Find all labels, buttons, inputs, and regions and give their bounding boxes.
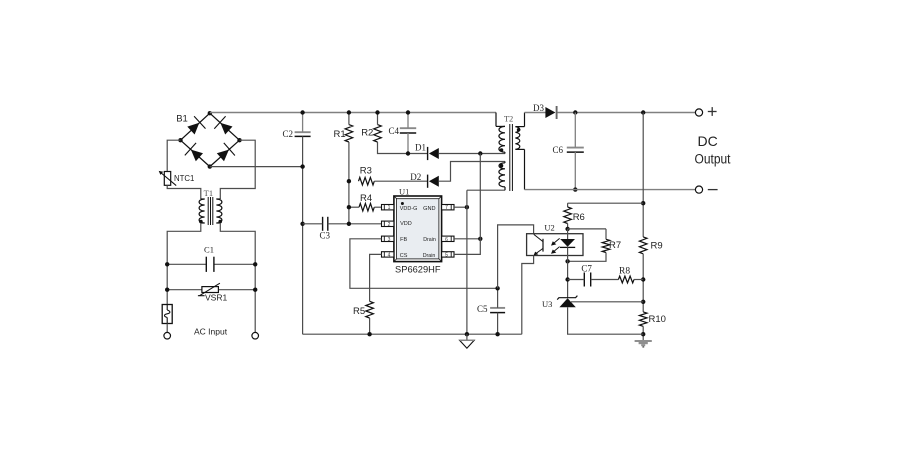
resistor R1	[345, 125, 353, 142]
DC output + terminal	[695, 109, 702, 116]
svg-text:R6: R6	[573, 212, 585, 223]
svg-text:NTC1: NTC1	[174, 173, 195, 183]
svg-text:VDD-G: VDD-G	[400, 206, 418, 212]
label R10	[649, 314, 666, 325]
label U2	[544, 222, 554, 232]
svg-text:R7: R7	[609, 240, 621, 251]
label VDD	[400, 221, 412, 227]
svg-text:R9: R9	[651, 240, 663, 251]
node U3 ref junction	[641, 300, 645, 304]
node C4 top	[406, 110, 410, 114]
wire U3 anode	[568, 307, 644, 334]
wire NTC to T1 left	[167, 185, 201, 199]
label C1	[204, 245, 214, 255]
svg-text:C1: C1	[204, 245, 214, 255]
phase dot T1 right	[218, 220, 222, 224]
label +	[708, 107, 717, 116]
svg-text:4: 4	[388, 252, 391, 258]
phase dot T2 aux	[500, 164, 504, 168]
svg-text:AC Input: AC Input	[194, 327, 228, 337]
label DC	[697, 133, 717, 149]
wire C4 top lead	[407, 113, 409, 129]
AC terminal left	[164, 332, 171, 339]
label R6	[573, 212, 585, 223]
node R2 top	[375, 110, 379, 114]
transformer T2	[496, 113, 525, 192]
label R2	[361, 128, 373, 139]
svg-text:SP6629HF: SP6629HF	[395, 265, 441, 275]
wire FB net	[350, 239, 498, 288]
wire C6 top lead	[574, 113, 576, 148]
wire U3 ref line	[571, 301, 643, 303]
wire drain column	[454, 154, 480, 255]
capacitor C3	[323, 217, 328, 231]
wire R6 bottom lead	[567, 224, 569, 229]
wire bridge right to T1 right	[220, 140, 255, 199]
wire aux winding bottom	[467, 189, 505, 191]
label Drain pin6	[423, 237, 436, 243]
wire R8 right lead	[634, 279, 643, 281]
label R1	[334, 129, 346, 140]
wire C4 bottom lead	[407, 133, 409, 154]
label VDD-G	[400, 206, 418, 212]
node Drain junction	[478, 237, 482, 241]
wire C5 bottom lead	[497, 313, 499, 335]
wire C2 top lead	[302, 113, 304, 133]
label -	[708, 189, 718, 191]
pin 5 (Drain)	[442, 252, 454, 259]
fuse F1	[162, 305, 172, 324]
wire + rail	[557, 112, 695, 114]
svg-text:C5: C5	[477, 304, 488, 314]
wire C1 left lead	[167, 263, 206, 265]
svg-text:U1: U1	[399, 186, 409, 196]
wire opto collector	[498, 225, 534, 288]
diode D1	[428, 147, 439, 160]
wire bridge left to NTC	[167, 140, 180, 171]
svg-text:3: 3	[388, 237, 391, 243]
label C6	[553, 145, 564, 155]
opto LED	[560, 239, 575, 247]
wire R3 right lead	[374, 180, 427, 182]
opto phototransistor	[534, 234, 544, 255]
capacitor C1	[206, 257, 214, 272]
node R8 right junction	[641, 277, 645, 281]
phase dot T2 secondary	[517, 128, 521, 132]
wire R7 top lead	[605, 229, 607, 239]
svg-text:2: 2	[388, 222, 391, 228]
node VSR1 right	[253, 288, 257, 292]
wire C6 bottom lead	[574, 152, 576, 190]
svg-text:T1: T1	[204, 188, 213, 198]
node R10 bottom	[641, 332, 645, 336]
node C6 top	[573, 110, 577, 114]
wire R4 left lead	[349, 206, 359, 208]
node C5 top FB junction	[495, 286, 499, 290]
AC terminal right	[252, 332, 259, 339]
wire R2 top lead	[377, 113, 379, 125]
node R4 left	[347, 205, 351, 209]
wire Drain pin6 lead	[454, 238, 480, 240]
capacitor C7	[584, 273, 590, 287]
label R9	[651, 240, 663, 251]
wire - rail	[525, 189, 696, 191]
svg-text:VSR1: VSR1	[205, 293, 227, 303]
node C4 bottom	[406, 151, 410, 155]
node GND pin junction	[465, 205, 469, 209]
wire GND pin lead	[454, 206, 467, 208]
resistor R2	[374, 125, 382, 142]
optocoupler U2 body	[527, 234, 583, 256]
svg-text:U3: U3	[542, 299, 552, 309]
resistor R8	[618, 276, 634, 283]
svg-text:D1: D1	[415, 143, 426, 153]
svg-text:Output: Output	[695, 152, 731, 167]
wire R7 top line	[568, 228, 606, 230]
node VSR1 left	[165, 288, 169, 292]
label NTC1	[174, 173, 195, 183]
label C3	[320, 230, 331, 240]
svg-text:C6: C6	[553, 145, 564, 155]
wire opto emitter	[522, 256, 534, 335]
diode D3	[545, 106, 556, 119]
node C2 bridge junction	[300, 164, 304, 168]
wire R7 bottom lead	[568, 253, 606, 262]
wire C7 left lead	[568, 279, 585, 281]
svg-text:D2: D2	[410, 172, 421, 182]
phase dot T2 primary	[500, 148, 504, 152]
wire R4 right lead	[374, 206, 381, 208]
node bridge bottom	[208, 164, 212, 168]
label C7	[581, 264, 592, 274]
wire C3 to VDD pin	[328, 223, 382, 225]
wire R9 bottom	[642, 254, 644, 312]
label CS	[400, 253, 408, 259]
svg-text:R2: R2	[361, 128, 373, 139]
resistor R7	[602, 239, 610, 252]
wire R6 top line	[568, 202, 644, 204]
bridge rectifier B1	[181, 113, 240, 166]
node C7 left junction	[565, 277, 569, 281]
svg-text:R8: R8	[619, 266, 630, 276]
label R4	[360, 193, 372, 204]
svg-text:1: 1	[388, 205, 391, 211]
label T1	[204, 188, 213, 198]
wire R6 top lead	[567, 203, 569, 207]
node R1 top	[347, 110, 351, 114]
label FB	[400, 237, 407, 243]
label D1	[415, 143, 426, 153]
wire R9 column upper	[642, 113, 644, 237]
wire GND column	[466, 190, 468, 334]
phase dot T1 left	[199, 220, 203, 224]
label R3	[360, 166, 372, 177]
svg-text:C7: C7	[581, 264, 592, 274]
label AC Input	[194, 327, 228, 337]
node R5 bottom	[367, 332, 371, 336]
wire C3 left lead	[303, 223, 323, 225]
pin 4 (CS)	[382, 252, 394, 259]
svg-text:R4: R4	[360, 193, 372, 204]
node R3 left	[347, 179, 351, 183]
label B1	[176, 114, 188, 125]
svg-text:6: 6	[445, 237, 448, 243]
svg-text:R1: R1	[334, 129, 346, 140]
capacitor C6	[567, 148, 584, 153]
label U1	[399, 186, 409, 196]
node C5 bottom	[495, 332, 499, 336]
svg-text:C2: C2	[283, 129, 294, 139]
capacitor C2	[295, 132, 311, 136]
capacitor C4	[400, 128, 416, 133]
capacitor C5	[490, 308, 505, 313]
node R9 column top	[641, 110, 645, 114]
wire R1 top lead	[348, 113, 350, 125]
node GND rail	[465, 332, 469, 336]
opto light arrows	[551, 238, 560, 253]
LED anode wire	[567, 229, 569, 239]
label VSR1	[205, 293, 227, 303]
resistor R4	[359, 203, 374, 211]
pin 3 (FB)	[382, 236, 394, 243]
node bridge top	[208, 111, 212, 115]
resistor R10	[639, 312, 647, 326]
svg-text:R3: R3	[360, 166, 372, 177]
svg-text:7: 7	[445, 205, 448, 211]
node C2 C3 junction	[300, 222, 304, 226]
wire LED cathode down	[567, 261, 569, 297]
svg-text:U2: U2	[544, 222, 554, 232]
svg-text:Drain: Drain	[423, 253, 436, 259]
node LED cathode	[565, 259, 569, 263]
label D2	[410, 172, 421, 182]
node C3 right	[347, 222, 351, 226]
op-amp U1 body (SP6629HF)	[394, 196, 442, 262]
svg-text:D3: D3	[533, 103, 544, 113]
wire R1 column	[348, 142, 350, 224]
wire C5 top lead	[497, 288, 499, 308]
svg-text:T2: T2	[504, 114, 513, 124]
pin 6 (Drain)	[442, 236, 454, 243]
svg-text:C4: C4	[389, 126, 400, 136]
wire CS net	[370, 254, 382, 301]
pin 7 (GND)	[442, 205, 454, 212]
thermistor NTC1	[159, 171, 177, 186]
wire primary ground rail	[303, 333, 522, 335]
resistor R6	[564, 207, 572, 224]
label C2	[283, 129, 294, 139]
wire fuse to AC terminal	[166, 324, 168, 333]
wire T1 left down	[167, 223, 201, 305]
node C2 top	[300, 110, 304, 114]
pin1 indicator dot	[401, 202, 404, 205]
wire VSR1 left lead	[167, 289, 202, 291]
label R8	[619, 266, 630, 276]
resistor R3	[359, 177, 375, 185]
node R6 bottom	[565, 227, 569, 231]
wire C2 column	[302, 136, 304, 334]
wire R10 bottom	[642, 326, 644, 340]
wire C1 right lead	[214, 263, 255, 265]
node bridge left	[178, 138, 182, 142]
svg-text:Drain: Drain	[423, 237, 436, 243]
label C4	[389, 126, 400, 136]
node D1 drain junction	[478, 151, 482, 155]
wire R5 bottom lead	[369, 318, 371, 334]
label SP6629HF	[395, 265, 441, 275]
node C1 right	[253, 262, 257, 266]
label D3	[533, 103, 544, 113]
svg-text:B1: B1	[176, 114, 188, 125]
resistor R5	[366, 301, 374, 318]
svg-text:R10: R10	[649, 314, 666, 325]
label Drain pin5	[423, 253, 436, 259]
varistor VSR1	[198, 283, 220, 296]
svg-text:DC: DC	[697, 133, 717, 149]
pin 2 (VDD)	[382, 221, 394, 228]
resistor R9	[639, 237, 647, 254]
svg-text:CS: CS	[400, 253, 408, 259]
pin 1 (VDD-G)	[382, 205, 394, 212]
svg-text:R5: R5	[353, 306, 365, 317]
svg-text:GND: GND	[423, 206, 435, 212]
wire + rail left	[525, 112, 547, 114]
transformer T1 (common-mode choke)	[199, 197, 222, 225]
node C1 left	[165, 262, 169, 266]
label Output	[695, 152, 731, 167]
wire top rail	[210, 112, 496, 114]
node C6 bottom	[573, 187, 577, 191]
label GND pin	[423, 206, 435, 212]
svg-text:VDD: VDD	[400, 221, 412, 227]
wire D2 anode to aux winding	[439, 162, 505, 182]
wire bridge bottom to C2	[210, 166, 303, 168]
node R6 line junction	[641, 201, 645, 205]
LED cathode wire	[567, 247, 569, 261]
wire C7 to R8	[591, 279, 619, 281]
label C5	[477, 304, 488, 314]
svg-text:5: 5	[445, 252, 448, 258]
svg-text:C3: C3	[320, 230, 331, 240]
wire T1 right down	[220, 223, 255, 332]
svg-text:FB: FB	[400, 237, 407, 243]
label T2	[504, 114, 513, 124]
wire VSR1 right lead	[218, 289, 255, 291]
shunt regulator U3 (TL431)	[557, 296, 577, 308]
wire R2 bottom lead	[378, 142, 428, 154]
node bridge right	[237, 138, 241, 142]
label U3	[542, 299, 552, 309]
DC output - terminal	[695, 186, 702, 193]
ground (primary)	[460, 334, 475, 348]
diode D2	[428, 175, 439, 188]
label R7	[609, 240, 621, 251]
label R5	[353, 306, 365, 317]
ground (secondary)	[635, 340, 652, 348]
wire D1 anode to T2	[439, 153, 505, 155]
